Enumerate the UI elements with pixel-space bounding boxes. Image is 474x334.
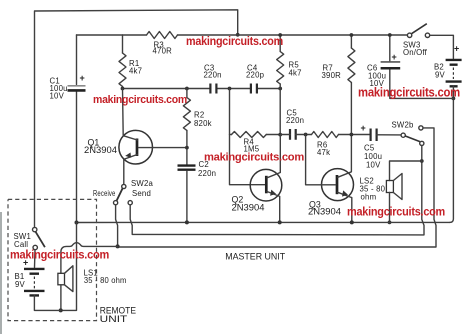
wire Q3 base L from C5/R6 node (306, 135, 336, 185)
svg-text:Receive: Receive (93, 189, 116, 198)
svg-text:4k7: 4k7 (129, 67, 142, 76)
wire SW2b top throw to right drop (118, 128, 436, 247)
node top wire joins rail (236, 33, 240, 37)
wire bus1 ground bus (77, 221, 450, 223)
svg-text:220n: 220n (198, 169, 216, 178)
svg-text:SW2b: SW2b (392, 121, 414, 130)
node bus3 left dot (116, 244, 120, 248)
capacitor C6 (390, 35, 454, 98)
resistor R4 (230, 134, 281, 136)
wire SW2a receive contact down to bus3 (116, 205, 118, 247)
svg-text:2N3904: 2N3904 (84, 145, 117, 155)
svg-text:makingcircuits.com: makingcircuits.com (93, 94, 187, 106)
capacitor C4 (251, 84, 257, 94)
svg-text:+: + (454, 44, 459, 54)
wire LS2 top (390, 161, 422, 181)
svg-text:UNIT: UNIT (100, 314, 128, 325)
wire SW2b bottom throw down (132, 146, 424, 235)
svg-text:390R: 390R (322, 71, 342, 80)
svg-text:Send: Send (132, 189, 151, 198)
svg-text:9V: 9V (435, 71, 446, 80)
dashed remote unit box (8, 199, 97, 320)
resistor R3 (147, 32, 178, 39)
svg-text:makingcircuits.com: makingcircuits.com (204, 151, 304, 163)
svg-text:10V: 10V (50, 92, 65, 101)
battery B2 (434, 44, 462, 87)
svg-text:SW2a: SW2a (131, 179, 153, 188)
svg-text:220n: 220n (204, 71, 222, 80)
capacitor C5 220n (290, 129, 296, 140)
wire C1 bottom continues into remote unit (61, 223, 77, 311)
scan edge artifact left (0, 212, 2, 334)
wire SW3 to B2 top (430, 35, 454, 58)
svg-text:47k: 47k (317, 148, 330, 157)
resistor R6 (312, 132, 339, 138)
capacitor C3 (210, 84, 216, 94)
svg-text:makingcircuits.com: makingcircuits.com (358, 86, 460, 100)
svg-text:makingcircuits.com: makingcircuits.com (186, 34, 283, 48)
resistor R1 (122, 35, 124, 89)
loudspeaker LS1 (58, 266, 127, 292)
svg-text:On/Off: On/Off (403, 48, 428, 57)
node Q3 emitter on bus1 (350, 220, 354, 224)
switch SW2b (401, 133, 405, 137)
svg-text:+: + (80, 73, 85, 83)
transistor Q2 (232, 135, 282, 223)
svg-text:ohm: ohm (361, 193, 377, 202)
node R1/Q1 collector (121, 87, 125, 91)
svg-text:820k: 820k (194, 119, 212, 128)
svg-text:MASTER UNIT: MASTER UNIT (225, 252, 285, 262)
wire Q1 collector node row (123, 88, 281, 90)
svg-text:4k7: 4k7 (289, 69, 302, 78)
node R4/C5/Q2 collector (278, 133, 282, 137)
wire top loop from SW1 to supply rail (35, 10, 238, 228)
wire LS1 bottom (60, 285, 62, 311)
svg-text:2N3904: 2N3904 (308, 207, 341, 217)
switch SW1 (33, 227, 37, 231)
svg-text:+: + (361, 123, 366, 133)
node C1 bottom on bus1 (75, 221, 79, 225)
wire Q2 base from C3/C4 node (230, 89, 266, 185)
svg-text:9V: 9V (15, 280, 26, 289)
svg-text:10V: 10V (366, 161, 381, 170)
wire B2 negative down to bus1 (450, 86, 454, 222)
transistor Q3 (308, 135, 354, 223)
node R2 top (185, 87, 189, 91)
resistor R5 (279, 35, 281, 135)
svg-text:220p: 220p (246, 71, 265, 80)
svg-text:Call: Call (14, 240, 28, 249)
transistor Q1 (84, 89, 153, 185)
svg-text:220n: 220n (286, 116, 304, 125)
svg-text:makingcircuits.com: makingcircuits.com (10, 250, 109, 262)
resistor R7 (350, 35, 352, 135)
wire B1 negative to LS1 bottom (34, 295, 60, 310)
switch SW2a (123, 183, 125, 185)
capacitor C2 (178, 166, 196, 170)
node C3/C4 to Q2 base (228, 87, 232, 91)
node C4/R5 (278, 87, 282, 91)
svg-text:+: + (392, 52, 397, 62)
switch SW3 (407, 33, 411, 37)
node LS2 top joins SW2b bottom line (420, 159, 424, 163)
svg-text:2N3904: 2N3904 (232, 203, 265, 213)
wire SW2a send contact down to bus2 (130, 205, 132, 234)
wire bus3 left end hop over C1 wire and curve to LS1 (61, 243, 118, 274)
node Q3 base tap (304, 133, 308, 137)
svg-text:35 - 80 ohm: 35 - 80 ohm (84, 276, 127, 285)
wire LS2 bottom to bus1 (389, 193, 391, 223)
wire supply rail (77, 34, 408, 36)
svg-text:470R: 470R (153, 47, 173, 56)
wire Q1 base to R2/C2 node (139, 147, 187, 149)
loudspeaker LS2 (360, 174, 403, 202)
node C2 on bus1 (185, 220, 189, 224)
svg-text:makingcircuits.com: makingcircuits.com (347, 207, 445, 219)
node Q2 emitter on bus1 (278, 220, 282, 224)
resistor R2 (186, 89, 188, 165)
capacitor C1 (76, 35, 78, 223)
capacitor C5 100u output (371, 129, 377, 142)
battery B1 (15, 250, 45, 296)
